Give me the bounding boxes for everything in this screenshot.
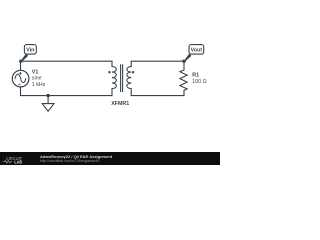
svg-text:100 Ω: 100 Ω	[192, 79, 206, 85]
wire top rail left (Vin node to transformer)	[21, 60, 113, 62]
svg-text:http://circuitlab.com/c/726mqp: http://circuitlab.com/c/726mqpsuka49	[40, 159, 99, 163]
svg-text:XFMR1: XFMR1	[111, 101, 129, 107]
wire left vertical bottom stub	[20, 87, 22, 96]
wire bottom rail right (transformer to resistor)	[131, 95, 184, 97]
core lines	[121, 64, 123, 92]
wire top rail right (transformer to Vout node)	[131, 60, 184, 62]
flag Vout box	[189, 45, 204, 55]
phase dot primary	[108, 71, 110, 73]
svg-text:Vout: Vout	[191, 48, 203, 54]
logo CircuitLab	[3, 156, 22, 165]
svg-text:AdamRooney22 / Q3 E&E Assignme: AdamRooney22 / Q3 E&E Assignment	[40, 154, 113, 159]
flag Vin pointer	[20, 54, 28, 62]
phase dot secondary	[132, 71, 134, 73]
label R1 value	[192, 72, 206, 85]
resistor R1	[180, 61, 187, 95]
voltage source V1 (sine)	[12, 70, 29, 87]
svg-text:R1: R1	[192, 72, 199, 78]
svg-text:V1: V1	[32, 69, 39, 75]
svg-text:Vin: Vin	[26, 48, 34, 54]
flag Vin box	[24, 45, 36, 55]
flag Vout pointer	[183, 54, 191, 62]
label V1 value	[32, 69, 46, 88]
secondary winding	[127, 61, 131, 95]
ground	[42, 94, 54, 111]
wire left vertical top stub	[20, 61, 22, 70]
svg-text:LAB: LAB	[14, 159, 22, 164]
node Vout junction dot	[182, 60, 185, 63]
node Vin junction dot	[19, 60, 22, 63]
watermark bar	[0, 152, 220, 165]
primary winding	[112, 61, 116, 95]
transformer XFMR1	[112, 61, 131, 95]
svg-text:1 kHz: 1 kHz	[32, 82, 46, 88]
svg-text:sine: sine	[32, 76, 42, 82]
wire bottom rail left (source to transformer)	[21, 95, 113, 97]
